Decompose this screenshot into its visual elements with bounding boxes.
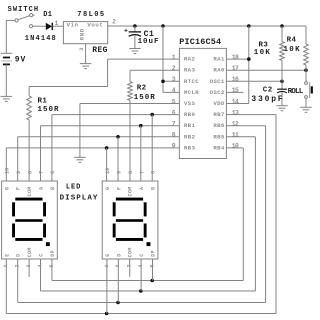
svg-text:DISPLAY: DISPLAY [60, 195, 99, 203]
svg-text:1: 1 [3, 264, 9, 267]
svg-text:17: 17 [232, 65, 239, 72]
svg-text:D: D [16, 253, 22, 256]
svg-text:18: 18 [232, 54, 239, 61]
svg-text:3: 3 [26, 264, 32, 267]
svg-text:A: A [139, 187, 145, 190]
svg-text:RTCC: RTCC [184, 78, 199, 85]
svg-text:2: 2 [112, 19, 116, 26]
svg-text:3: 3 [172, 76, 176, 83]
svg-text:G: G [105, 187, 111, 190]
svg-text:10: 10 [5, 168, 11, 174]
svg-text:RB1: RB1 [184, 122, 196, 129]
svg-text:RB4: RB4 [213, 144, 225, 151]
svg-text:2: 2 [115, 264, 121, 267]
svg-text:10K: 10K [284, 46, 301, 54]
svg-text:E: E [105, 253, 111, 256]
svg-text:16: 16 [232, 76, 239, 83]
svg-text:8: 8 [128, 171, 134, 174]
svg-text:Vin: Vin [67, 22, 79, 29]
svg-text:5: 5 [149, 264, 155, 267]
svg-text:78L05: 78L05 [77, 11, 105, 19]
svg-text:A: A [39, 187, 45, 190]
svg-text:COM: COM [128, 186, 134, 196]
svg-text:RB3: RB3 [184, 144, 196, 151]
svg-text:4: 4 [138, 264, 144, 267]
svg-text:DP: DP [50, 250, 56, 257]
svg-text:6: 6 [151, 171, 157, 174]
svg-text:C: C [39, 253, 45, 256]
svg-text:RB2: RB2 [184, 133, 196, 140]
svg-text:9: 9 [117, 171, 123, 174]
svg-text:3: 3 [79, 48, 85, 51]
svg-text:LED: LED [66, 183, 81, 191]
svg-text:150R: 150R [134, 94, 156, 102]
svg-text:OSC2: OSC2 [210, 89, 225, 96]
svg-text:1: 1 [172, 54, 176, 61]
svg-text:10uF: 10uF [138, 38, 160, 46]
svg-text:2: 2 [172, 65, 176, 72]
svg-text:150R: 150R [38, 106, 60, 114]
svg-text:4: 4 [172, 87, 176, 94]
svg-text:R2: R2 [137, 84, 147, 92]
svg-text:DP: DP [151, 250, 157, 257]
svg-text:330pF: 330pF [251, 95, 284, 104]
svg-text:E: E [4, 253, 10, 256]
svg-text:G: G [4, 187, 10, 190]
svg-text:10: 10 [105, 168, 111, 174]
svg-text:3: 3 [127, 264, 133, 267]
svg-text:C2: C2 [263, 87, 273, 95]
svg-text:VSS: VSS [184, 100, 196, 107]
svg-text:RA1: RA1 [213, 56, 225, 63]
svg-text:9V: 9V [15, 55, 26, 64]
svg-text:RA2: RA2 [184, 56, 196, 63]
svg-text:2: 2 [15, 264, 21, 267]
svg-text:ROLL: ROLL [288, 88, 304, 96]
svg-text:C: C [139, 253, 145, 256]
svg-text:VDD: VDD [213, 100, 225, 107]
svg-text:RB0: RB0 [184, 111, 196, 118]
svg-text:R4: R4 [287, 37, 297, 45]
svg-text:11: 11 [232, 132, 239, 139]
svg-text:4: 4 [37, 264, 43, 267]
svg-text:R1: R1 [38, 97, 48, 105]
svg-text:D: D [116, 253, 122, 256]
svg-text:9: 9 [172, 143, 176, 150]
svg-text:6: 6 [172, 109, 176, 116]
svg-text:7: 7 [139, 171, 145, 174]
svg-text:1: 1 [104, 264, 110, 267]
svg-text:D1: D1 [43, 11, 52, 19]
svg-text:PIC16C54: PIC16C54 [179, 37, 221, 47]
svg-text:10K: 10K [254, 49, 271, 57]
svg-text:8: 8 [27, 171, 33, 174]
svg-text:15: 15 [232, 87, 239, 94]
svg-text:RB6: RB6 [213, 122, 225, 129]
svg-text:MCLR: MCLR [184, 89, 199, 96]
svg-text:RA3: RA3 [184, 67, 196, 74]
svg-text:5: 5 [49, 264, 55, 267]
svg-text:COM: COM [27, 247, 33, 257]
svg-text:10: 10 [232, 143, 239, 150]
svg-text:1: 1 [55, 20, 59, 27]
svg-text:14: 14 [232, 98, 239, 105]
svg-text:8: 8 [172, 132, 176, 139]
svg-text:B: B [151, 187, 157, 190]
svg-text:6: 6 [50, 171, 56, 174]
svg-text:7: 7 [172, 121, 176, 128]
svg-text:1N4148: 1N4148 [25, 35, 57, 43]
svg-text:Vout: Vout [87, 22, 103, 29]
svg-text:13: 13 [232, 109, 239, 116]
svg-text:RB5: RB5 [213, 133, 225, 140]
svg-text:RB7: RB7 [213, 111, 225, 118]
svg-text:5: 5 [172, 98, 176, 105]
svg-text:9: 9 [16, 171, 22, 174]
svg-text:SWITCH: SWITCH [8, 6, 40, 14]
svg-text:F: F [16, 187, 22, 190]
svg-text:B: B [50, 187, 56, 190]
svg-text:OSC1: OSC1 [210, 78, 225, 85]
svg-text:REG: REG [92, 46, 107, 55]
svg-text:COM: COM [128, 247, 134, 257]
svg-text:7: 7 [39, 171, 45, 174]
svg-text:F: F [116, 187, 122, 190]
svg-text:GND: GND [78, 28, 85, 40]
svg-text:12: 12 [232, 121, 239, 128]
svg-text:RA0: RA0 [213, 67, 225, 74]
svg-text:COM: COM [27, 186, 33, 196]
svg-text:+: + [124, 27, 128, 34]
